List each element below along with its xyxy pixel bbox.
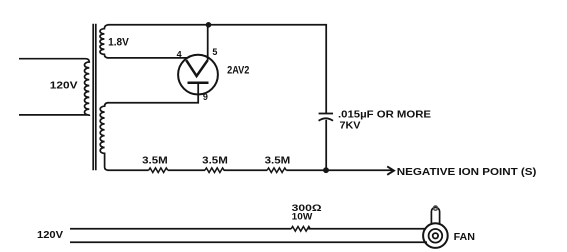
svg-text:3.5M: 3.5M [142,155,168,166]
svg-text:4: 4 [177,49,182,59]
svg-text:1.8V: 1.8V [108,36,129,48]
svg-text:FAN: FAN [454,232,475,243]
svg-text:9: 9 [203,92,208,102]
svg-text:3.5M: 3.5M [265,155,291,166]
svg-text:.015µF OR MORE: .015µF OR MORE [338,110,431,121]
svg-text:NEGATIVE ION POINT (S): NEGATIVE ION POINT (S) [397,167,537,178]
svg-text:7KV: 7KV [340,121,361,132]
svg-text:5: 5 [212,47,217,57]
svg-text:3.5M: 3.5M [202,155,228,166]
svg-text:120V: 120V [50,80,78,91]
svg-text:2AV2: 2AV2 [227,64,249,76]
svg-text:120V: 120V [37,230,63,241]
svg-text:10W: 10W [292,212,313,222]
